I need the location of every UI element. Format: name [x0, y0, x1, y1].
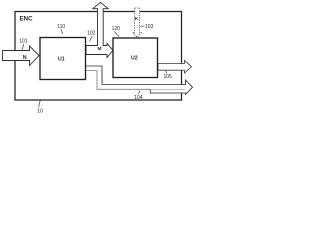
- hollow arrow M from U1 to U2 with up branch (102 output): [86, 2, 113, 57]
- svg-text:102: 102: [87, 31, 96, 37]
- svg-text:M: M: [98, 46, 102, 52]
- svg-text:103: 103: [145, 24, 154, 30]
- ref 104 with leader: [134, 91, 143, 102]
- svg-text:U2: U2: [131, 55, 138, 61]
- ref 110 with leader: [57, 24, 65, 34]
- input hollow arrow N (101): [3, 46, 40, 66]
- ref 10 with leader: [37, 100, 43, 114]
- svg-text:U1: U1: [58, 57, 65, 63]
- label N inside input arrow: [23, 55, 27, 61]
- svg-text:120: 120: [112, 26, 121, 32]
- svg-text:10: 10: [37, 108, 43, 114]
- ref 101 with leader: [19, 38, 28, 50]
- svg-text:101: 101: [19, 38, 28, 44]
- svg-text:104: 104: [134, 95, 143, 101]
- ref 103 with leader: [140, 24, 153, 30]
- svg-text:K: K: [135, 16, 139, 22]
- ref 120 with leader: [112, 26, 121, 37]
- label ENC: [20, 16, 34, 23]
- ref 102 with leader: [87, 31, 96, 42]
- svg-text:N: N: [23, 55, 27, 61]
- enclosure box ENC (10): [15, 12, 182, 101]
- block U1 (110): [40, 38, 86, 80]
- output hollow arrow 105 from U2: [158, 61, 192, 74]
- block U2 (120): [113, 38, 158, 78]
- label K inside dashed arrow: [135, 16, 139, 22]
- svg-text:105: 105: [164, 74, 173, 80]
- label M inside bus arrow: [98, 46, 102, 52]
- dashed hollow down arrow K (103): [133, 8, 142, 37]
- svg-text:ENC: ENC: [20, 16, 34, 23]
- ref 105 with leader: [164, 71, 173, 81]
- wire 104 bent hollow trace from U1 to bottom output arrow: [86, 66, 193, 95]
